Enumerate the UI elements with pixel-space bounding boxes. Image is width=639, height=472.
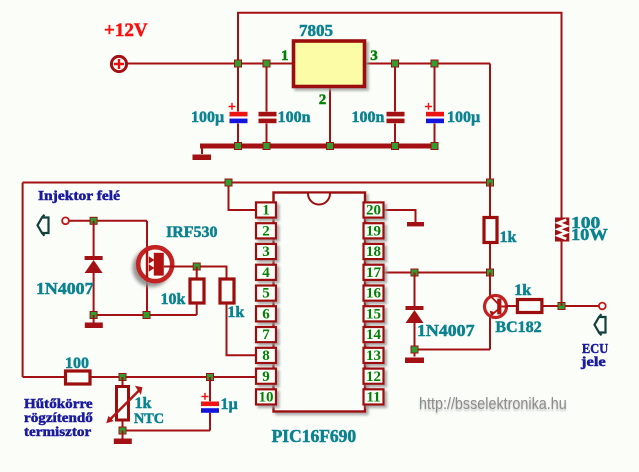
resistor R7 100 10W body xyxy=(555,218,569,242)
node junction source row xyxy=(143,312,150,319)
wire pin17 row xyxy=(384,272,491,274)
wire +5V drop to lower rail xyxy=(489,64,491,183)
node junction load column xyxy=(558,303,565,310)
node junction diode column xyxy=(411,269,418,276)
svg-text:7: 7 xyxy=(262,327,270,343)
label ECU xyxy=(582,343,608,357)
capacitor C3 100n leads xyxy=(394,64,396,147)
wire 100/10W bottom lead xyxy=(561,242,563,307)
label jele xyxy=(581,356,606,370)
label 1N4007 D1 xyxy=(36,280,94,297)
wire MOSFET drain/source vertical xyxy=(146,221,148,315)
IC U1 PIC16F690 body xyxy=(274,193,366,412)
capacitor C5 1u plates xyxy=(201,402,219,413)
resistor R4 1k vertical xyxy=(484,218,497,243)
pin 19 box xyxy=(364,223,384,239)
label 100u C1 xyxy=(191,110,224,126)
label 100 R5 xyxy=(65,356,89,372)
pin 8 box xyxy=(256,348,276,364)
ground symbol under D1 xyxy=(85,315,103,328)
label 100u C4 xyxy=(447,110,480,126)
svg-text:16: 16 xyxy=(366,286,382,302)
pin 12 box xyxy=(364,369,384,385)
wire NTC bottom row to 1u cap xyxy=(123,430,211,432)
svg-text:13: 13 xyxy=(366,348,381,364)
node junction 1u cap top xyxy=(207,374,214,381)
pin 10 box xyxy=(256,389,276,405)
thermistor arrow xyxy=(106,386,142,424)
pin 6 box xyxy=(256,306,276,322)
label 100n C2 xyxy=(278,110,311,126)
resistor R2 10k xyxy=(190,279,204,303)
svg-text:5: 5 xyxy=(262,286,270,302)
wire top loop from +12V node to 100/10W resistor xyxy=(238,13,562,218)
pin 3 box xyxy=(256,244,276,260)
ground rail xyxy=(200,144,437,149)
wire pin9 row xyxy=(23,376,256,378)
capacitor C4 100u leads xyxy=(434,64,436,147)
label IRF530 xyxy=(166,225,218,241)
capacitor C1 100u plates xyxy=(230,112,248,123)
connector ECU pentagon xyxy=(595,314,606,335)
resistor R6 1k horizontal xyxy=(517,300,542,313)
svg-text:19: 19 xyxy=(366,223,381,239)
wire 10k bottom to source row xyxy=(94,303,197,315)
pin 1 box xyxy=(256,202,276,218)
ground symbol under NTC xyxy=(114,431,132,445)
label 1k NTC line2 xyxy=(134,412,164,427)
wire BC182 emitter xyxy=(489,318,491,350)
pin 18 box xyxy=(364,244,384,260)
label 1k R4 xyxy=(500,230,517,246)
transistor Q2 BC182 xyxy=(485,296,509,318)
capacitor C5 1u leads xyxy=(209,377,211,431)
pin 16 box xyxy=(364,286,384,302)
node junctions top rail xyxy=(235,60,439,67)
wire gate row xyxy=(164,267,227,280)
svg-text:10: 10 xyxy=(259,390,274,406)
label PIC16F690 xyxy=(272,428,357,446)
wire emitter to ground row xyxy=(415,350,491,357)
transistor Q1 IRF530 xyxy=(138,247,172,281)
pin 15 box xyxy=(364,306,384,322)
ground symbol left of rail xyxy=(193,148,212,160)
svg-text:14: 14 xyxy=(366,327,382,343)
wire 10k top lead xyxy=(196,267,198,280)
pin 9 box xyxy=(256,369,276,385)
capacitor C3 100n plates xyxy=(387,112,405,123)
pin 11 box xyxy=(364,389,384,405)
ground symbol under D2 xyxy=(405,358,424,364)
svg-text:17: 17 xyxy=(366,265,382,281)
pin 7 box xyxy=(256,327,276,343)
diode D2 1N4007 leads xyxy=(414,273,416,350)
label Hutokorre line1 xyxy=(24,398,93,412)
node junction injector/diode xyxy=(90,217,97,224)
pin 4 box xyxy=(256,265,276,281)
svg-text:9: 9 xyxy=(262,369,270,385)
capacitor C1 100u leads xyxy=(237,64,239,147)
label plus C5 xyxy=(201,391,209,405)
thermistor RT1 1k NTC leads xyxy=(122,377,124,431)
label Injektor fele xyxy=(38,190,120,204)
label pin1 7805 xyxy=(281,49,289,64)
terminal ECU open circle xyxy=(599,303,606,310)
pin 5 box xyxy=(256,286,276,302)
svg-text:11: 11 xyxy=(366,390,380,406)
pin 13 box xyxy=(364,348,384,364)
wire injector node xyxy=(69,220,147,222)
label plus C1 xyxy=(228,101,236,115)
terminal injector open circle xyxy=(62,217,69,224)
pin 17 box xyxy=(364,265,384,281)
svg-text:3: 3 xyxy=(262,244,270,260)
svg-text:4: 4 xyxy=(262,265,270,281)
regulator U2 7805 xyxy=(294,41,365,87)
terminal +12V input xyxy=(111,56,126,71)
svg-text:15: 15 xyxy=(366,306,381,322)
capacitor C2 100n plates xyxy=(259,112,277,123)
capacitor C2 100n leads xyxy=(266,64,268,147)
capacitor C4 100u plates xyxy=(426,112,444,123)
node junction NTC top xyxy=(119,374,126,381)
resistor R3 1k gate series xyxy=(220,279,234,303)
wire 7805 output rail xyxy=(365,63,491,65)
label Hutokorre line3 xyxy=(24,426,91,440)
wire R3 bottom to pin8 xyxy=(227,303,257,355)
node junction +5V corner xyxy=(487,179,494,186)
svg-text:1: 1 xyxy=(262,203,270,219)
node junction collector column xyxy=(487,269,494,276)
label 10k xyxy=(161,292,186,308)
label 1u C5 xyxy=(221,397,238,413)
wire +12V rail left of 7805 xyxy=(127,63,293,65)
wire pin20 to ground xyxy=(384,210,416,222)
label 100n C3 xyxy=(352,110,385,126)
pin 14 box xyxy=(364,327,384,343)
wire left vertical rail xyxy=(22,183,24,378)
thermistor RT1 body xyxy=(117,387,129,421)
label 1N4007 D2 xyxy=(417,322,475,339)
label 100 R7 xyxy=(571,214,600,231)
wire base to R6 xyxy=(507,305,517,307)
label 1k R3 xyxy=(227,305,244,321)
label BC182 xyxy=(495,320,541,336)
node junction NTC bottom xyxy=(119,427,126,434)
svg-text:6: 6 xyxy=(262,306,270,322)
diode D2 1N4007 body xyxy=(406,306,424,323)
svg-text:20: 20 xyxy=(366,203,381,219)
ground symbol pin20 xyxy=(407,222,424,226)
label 10W R7 xyxy=(571,226,608,243)
wire +5V horizontal rail xyxy=(23,182,490,184)
svg-text:2: 2 xyxy=(262,223,270,239)
diode D1 1N4007 body xyxy=(85,256,103,273)
node junction diode anode row xyxy=(90,312,97,319)
resistor R5 100 horizontal xyxy=(66,371,91,384)
wire to pin1 xyxy=(229,183,257,211)
pin 20 box xyxy=(364,202,384,218)
svg-text:8: 8 xyxy=(262,348,270,364)
node junctions ground rail xyxy=(235,143,439,150)
wire to resistor R4 1k pullup xyxy=(489,183,491,273)
wire R6 to ECU terminal xyxy=(542,305,600,307)
label pin2 7805 xyxy=(319,93,327,108)
label 1k R6 xyxy=(514,283,531,299)
label pin3 7805 xyxy=(370,49,378,64)
wire BC182 collector xyxy=(489,273,491,297)
wire 7805 pin2 to ground rail xyxy=(329,87,331,147)
label plus C4 xyxy=(425,101,433,115)
label +12V xyxy=(104,21,148,40)
connector injector pentagon xyxy=(38,215,49,236)
diode D1 1N4007 leads xyxy=(93,221,95,315)
svg-text:12: 12 xyxy=(366,369,381,385)
svg-text:18: 18 xyxy=(366,244,381,260)
label 7805 xyxy=(299,22,333,39)
node junction gate/10k xyxy=(193,263,200,270)
node junction emitter row xyxy=(411,346,418,353)
label 1k NTC line1 xyxy=(135,396,152,412)
node junction pin1 drop xyxy=(225,179,232,186)
pin 2 box xyxy=(256,223,276,239)
label website xyxy=(419,395,567,412)
label Hutokorre line2 xyxy=(24,412,93,426)
